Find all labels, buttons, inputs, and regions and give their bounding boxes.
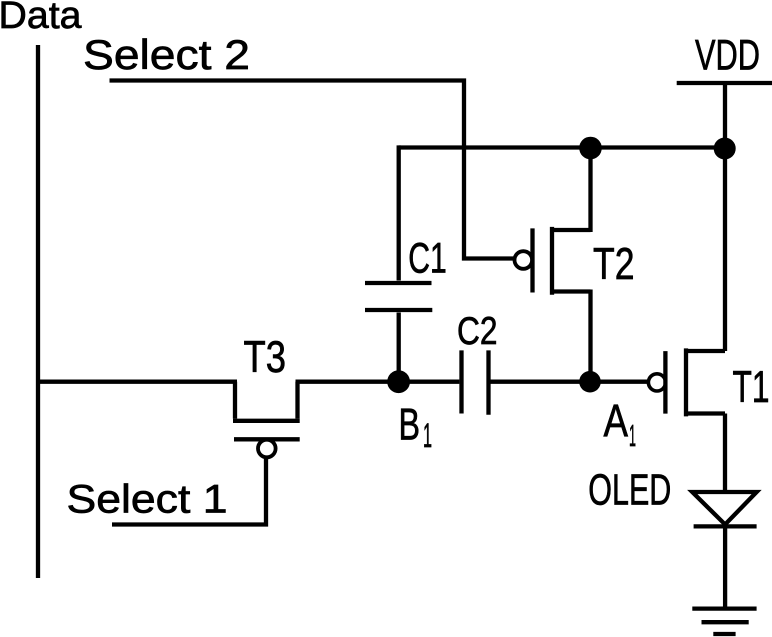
svg-text:VDD: VDD <box>695 32 760 80</box>
transistor T3 <box>233 382 300 458</box>
power VDD rail bar <box>677 81 772 85</box>
junction dot node B1 <box>387 370 410 393</box>
wire T3 gate to Select 1 line <box>112 457 266 525</box>
diode OLED <box>692 492 756 526</box>
ground <box>692 609 756 634</box>
node A1 label <box>604 395 637 453</box>
svg-text:Select 1: Select 1 <box>67 478 228 522</box>
wire T2 source down to node A1 <box>588 290 592 382</box>
junction dot node A1 <box>579 371 601 393</box>
transistor T2 <box>515 227 591 295</box>
wire C2 to node A1 to T1 gate <box>491 380 650 384</box>
svg-text:C1: C1 <box>408 235 447 283</box>
wire Select 2 line to T2 gate <box>110 81 515 259</box>
transistor T1 <box>648 348 725 416</box>
wire T2 drain up to top rail <box>588 148 592 233</box>
capacitor C2 <box>462 350 489 414</box>
wire T3 drain to node B1 to C2 <box>296 380 460 384</box>
svg-text:C2: C2 <box>457 310 498 353</box>
svg-text:T2: T2 <box>593 239 635 289</box>
wire Data bus to T3 source <box>38 380 237 384</box>
wire VDD rail drop to T1 drain <box>723 83 727 351</box>
junction dot T2 drain at top rail <box>579 137 602 160</box>
junction dot VDD node <box>714 138 736 160</box>
wire T1 source down to OLED anode <box>723 414 727 493</box>
svg-text:Data: Data <box>0 0 82 37</box>
svg-text:Select 2: Select 2 <box>83 31 250 78</box>
svg-text:OLED: OLED <box>588 467 671 515</box>
svg-text:1: 1 <box>423 417 432 455</box>
svg-text:1: 1 <box>629 418 636 453</box>
svg-text:B: B <box>399 401 421 450</box>
capacitor C1 <box>365 145 432 381</box>
svg-text:T3: T3 <box>244 333 287 382</box>
svg-text:T1: T1 <box>733 363 770 412</box>
wire Data vertical bus <box>36 45 40 578</box>
svg-text:A: A <box>604 395 629 446</box>
wire OLED cathode to ground <box>723 526 727 606</box>
wire top rail from C1 to VDD node <box>399 145 725 149</box>
node B1 label <box>399 401 433 455</box>
